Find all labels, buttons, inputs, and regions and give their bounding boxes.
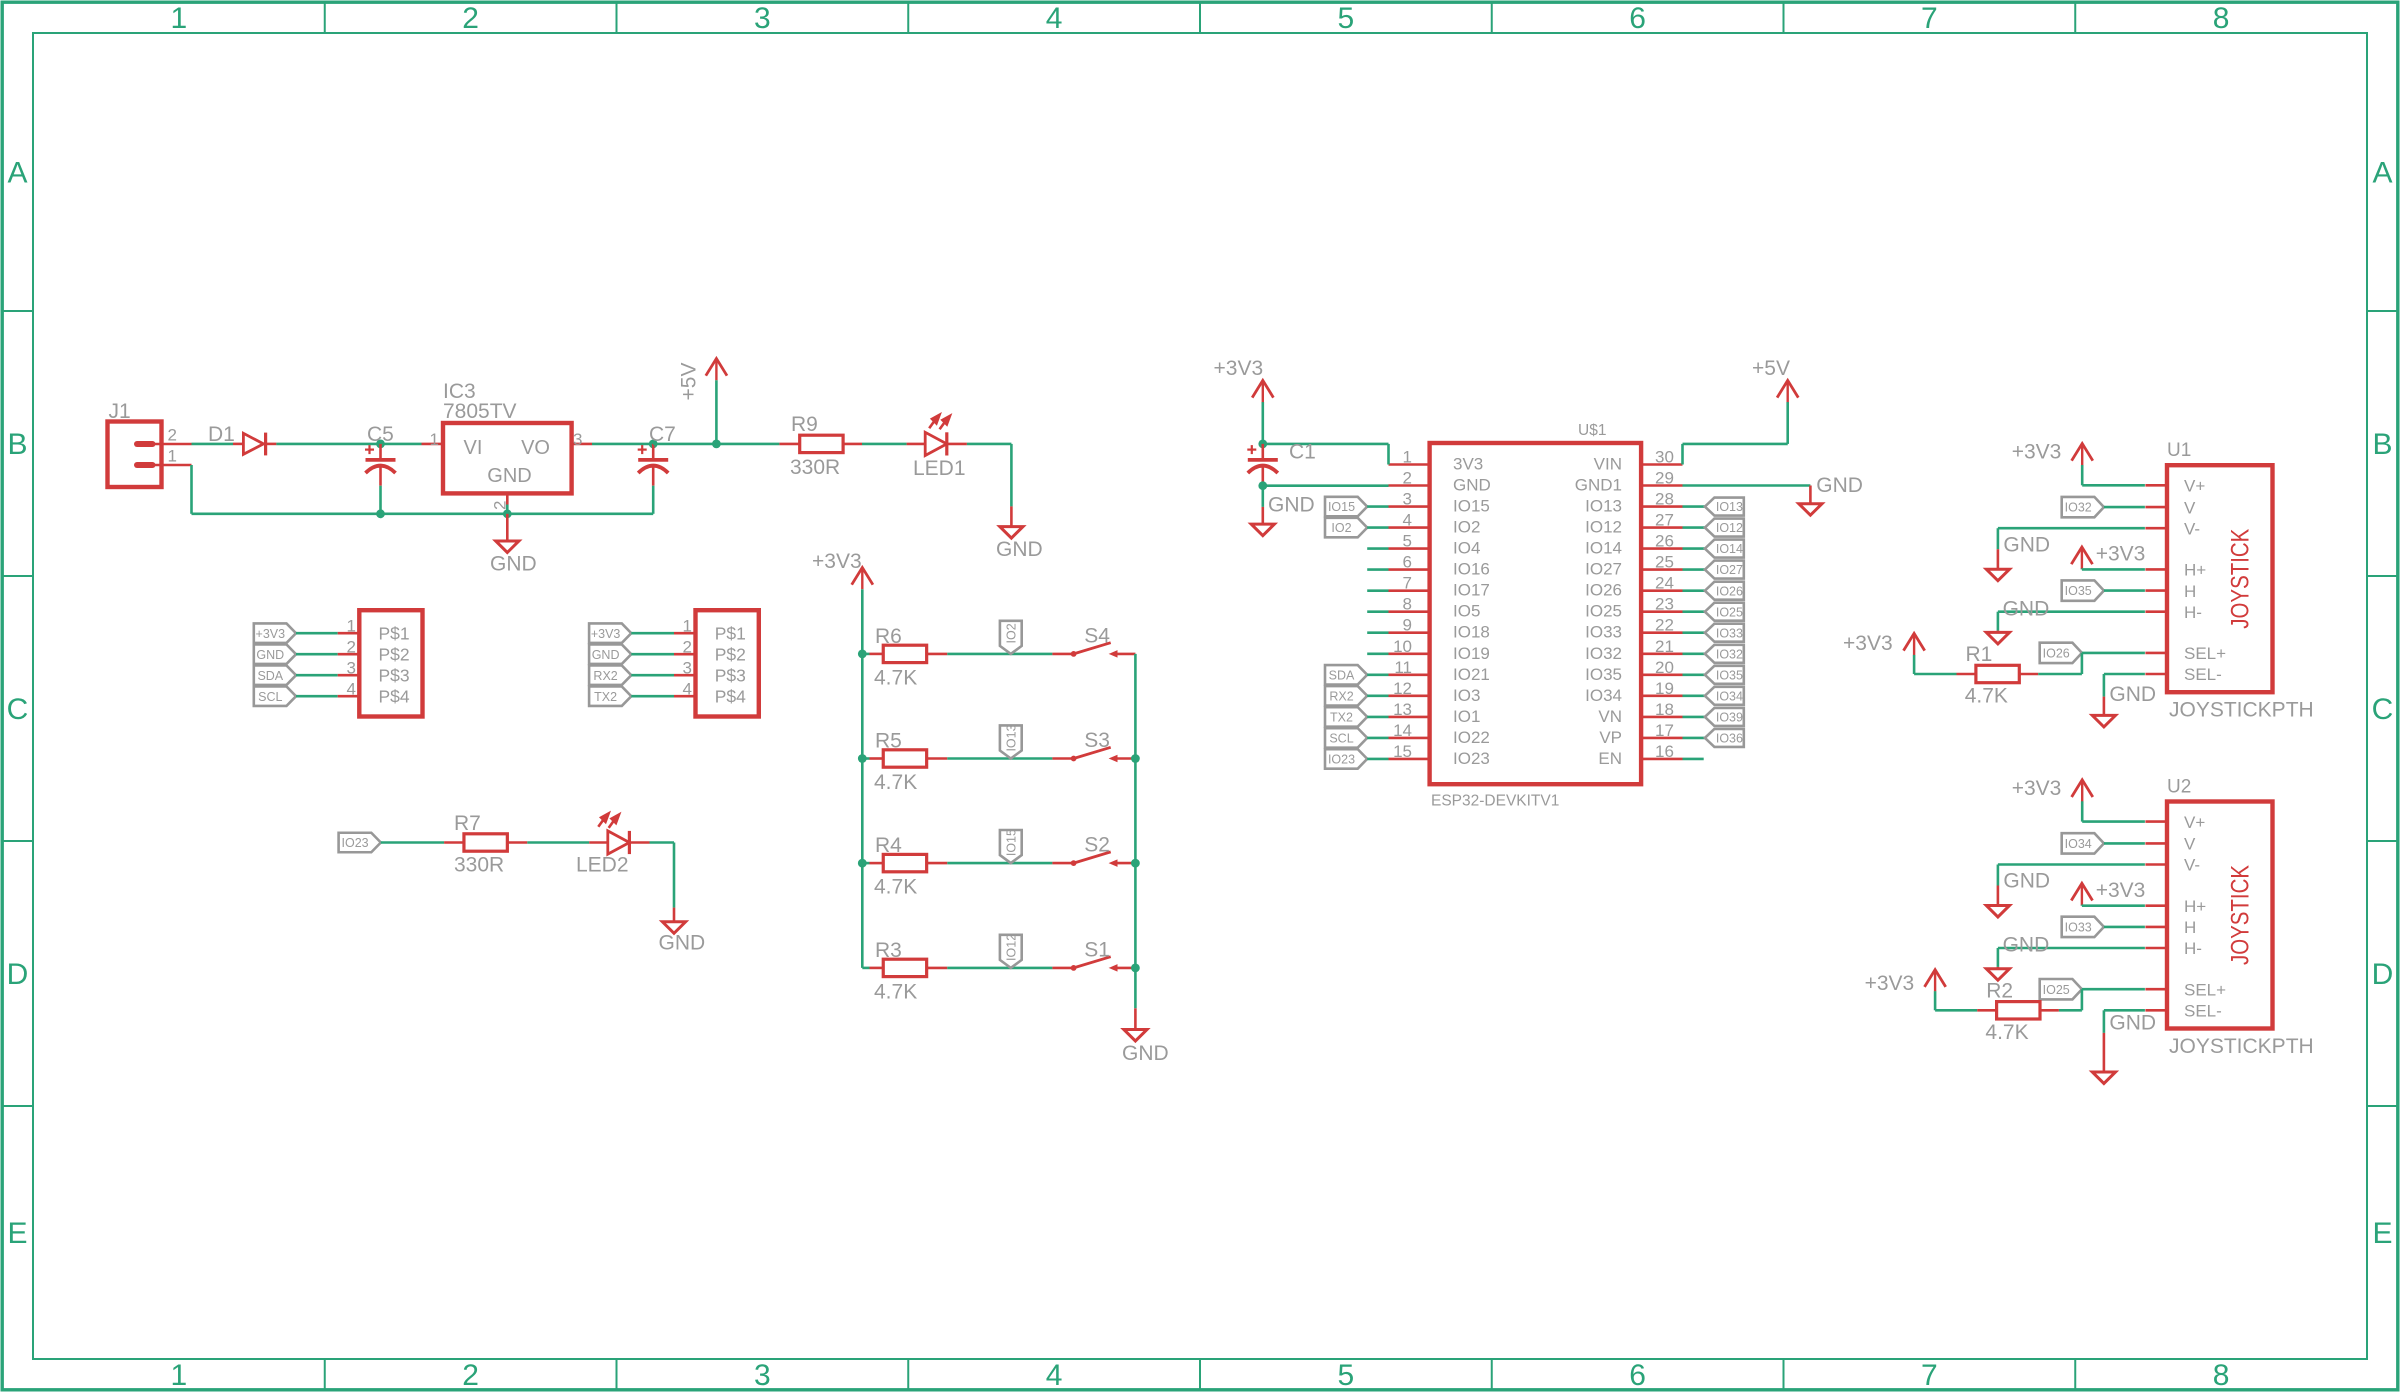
U2 pin SEL-	[2145, 1009, 2167, 1012]
svg-text:4.7K: 4.7K	[1965, 685, 2008, 708]
ground symbol below LED2	[673, 908, 676, 922]
net flag SDA to header P1 pin 3	[254, 665, 296, 685]
svg-text:C7: C7	[649, 423, 676, 446]
switch S2	[1052, 862, 1073, 865]
U$1 pin 1 (3V3)	[1389, 463, 1430, 466]
net flag GND to header P2 pin 2	[589, 644, 631, 664]
svg-text:IO26: IO26	[1716, 584, 1743, 598]
svg-text:IO26: IO26	[1585, 581, 1622, 600]
svg-text:+3V3: +3V3	[1214, 357, 1264, 380]
svg-text:24: 24	[1655, 574, 1674, 593]
svg-text:VI: VI	[464, 437, 483, 459]
wire R5 to S3	[947, 757, 1052, 760]
+3V3 supply at R1	[1913, 633, 1915, 655]
wire R3 to S1	[947, 967, 1052, 970]
U1 pin V-	[2145, 527, 2167, 530]
net flag +3V3 to header P2 pin 1	[589, 623, 631, 643]
svg-text:6: 6	[1629, 1359, 1646, 1392]
svg-text:B: B	[7, 428, 27, 461]
svg-text:GND: GND	[2003, 533, 2050, 556]
svg-text:3: 3	[683, 659, 692, 678]
svg-text:12: 12	[1393, 679, 1412, 698]
svg-text:TX2: TX2	[594, 690, 617, 704]
svg-text:S2: S2	[1084, 834, 1110, 857]
junction on +3V3 rail	[858, 650, 867, 659]
net flag IO26 at U$1 pin 24	[1683, 589, 1705, 592]
svg-text:H: H	[2184, 918, 2196, 937]
wire R7 to LED2	[527, 841, 589, 844]
svg-text:SDA: SDA	[257, 669, 283, 683]
+3V3 supply for button pull-ups	[861, 568, 863, 590]
svg-text:1: 1	[171, 1359, 188, 1392]
net flag SDA at U$1 pin 11	[1325, 665, 1367, 685]
net flag IO23 at U$1 pin 15	[1325, 749, 1367, 769]
svg-text:14: 14	[1393, 721, 1412, 740]
svg-text:3V3: 3V3	[1453, 455, 1483, 474]
svg-text:IO15: IO15	[1328, 500, 1355, 514]
U$1 pin 4 (IO2)	[1389, 526, 1430, 529]
svg-text:IO15: IO15	[1453, 497, 1490, 516]
svg-text:VO: VO	[521, 437, 550, 459]
wire LED1 to ground	[967, 443, 1012, 446]
U$1 pin 25 (IO27)	[1641, 568, 1682, 571]
resistor R5	[862, 757, 869, 760]
svg-text:EN: EN	[1598, 749, 1622, 768]
svg-text:30: 30	[1655, 448, 1674, 467]
wire C7 to +5V and R9	[653, 443, 779, 446]
U2 pin H-	[2145, 947, 2167, 950]
unconnected net stub pin 16	[1683, 758, 1704, 761]
net flag IO26 at U1 SEL+	[2040, 643, 2082, 663]
svg-text:P$2: P$2	[715, 645, 746, 665]
net flag IO12 at U$1 pin 27	[1683, 526, 1705, 529]
U1 pin V+	[2145, 484, 2167, 487]
U$1 pin 15 (IO23)	[1389, 758, 1430, 761]
U$1 pin 3 (IO15)	[1389, 505, 1430, 508]
unconnected net stub pin 5	[1367, 547, 1388, 550]
svg-text:IO32: IO32	[1585, 644, 1622, 663]
svg-text:IO25: IO25	[1716, 605, 1743, 619]
svg-text:GND: GND	[2109, 683, 2156, 706]
net flag SCL to header P1 pin 4	[254, 686, 296, 706]
U2 pin SEL+	[2145, 988, 2167, 991]
svg-text:P$4: P$4	[715, 687, 746, 707]
svg-text:26: 26	[1655, 532, 1674, 551]
junction C1 top	[1258, 440, 1267, 449]
junction on switch rail	[1131, 964, 1140, 973]
svg-text:IO23: IO23	[1328, 753, 1355, 767]
svg-text:R6: R6	[875, 625, 902, 648]
svg-text:C1: C1	[1289, 441, 1316, 464]
svg-text:IO2: IO2	[1453, 518, 1480, 537]
svg-text:IO36: IO36	[1716, 732, 1743, 746]
junction on +3V3 rail	[858, 754, 867, 763]
svg-text:R7: R7	[454, 812, 481, 835]
net flag IO32 at U$1 pin 21	[1683, 652, 1705, 655]
svg-text:P$4: P$4	[379, 687, 410, 707]
svg-text:U$1: U$1	[1578, 422, 1606, 439]
U2 pin V	[2145, 842, 2167, 845]
svg-text:3: 3	[1403, 490, 1412, 509]
svg-text:4: 4	[1046, 1359, 1063, 1392]
U$1 pin 12 (IO3)	[1389, 694, 1430, 697]
svg-text:GND: GND	[256, 648, 284, 662]
svg-text:GND: GND	[1268, 494, 1315, 517]
svg-text:GND: GND	[996, 538, 1043, 561]
svg-text:4: 4	[1403, 511, 1412, 530]
+3V3 supply at U2 H+	[2081, 883, 2083, 905]
svg-text:V-: V-	[2184, 519, 2200, 538]
net flag IO27 at U$1 pin 25	[1683, 568, 1705, 571]
svg-text:SEL-: SEL-	[2184, 665, 2222, 684]
svg-text:IO14: IO14	[1716, 542, 1743, 556]
svg-text:SEL+: SEL+	[2184, 980, 2226, 999]
+5V supply above VIN	[1786, 380, 1788, 402]
svg-text:D1: D1	[208, 423, 235, 446]
resistor R6	[862, 653, 869, 656]
wire C7 to GND rail	[652, 486, 655, 514]
U1 pin H-	[2145, 610, 2167, 613]
svg-text:IO34: IO34	[2065, 837, 2092, 851]
wire R9 to LED1	[862, 443, 907, 446]
svg-text:P$3: P$3	[715, 666, 746, 686]
svg-text:IO26: IO26	[2043, 647, 2070, 661]
svg-text:GND: GND	[2003, 597, 2050, 620]
U2 pin H+	[2145, 904, 2167, 907]
U1 pin SEL+	[2145, 652, 2167, 655]
net flag SCL at U$1 pin 14	[1325, 728, 1367, 748]
svg-text:S1: S1	[1084, 938, 1110, 961]
svg-text:5: 5	[1403, 532, 1412, 551]
ground symbol at U2 SEL-	[2103, 1033, 2106, 1072]
svg-text:25: 25	[1655, 553, 1674, 572]
svg-text:H+: H+	[2184, 561, 2206, 580]
svg-text:S4: S4	[1084, 624, 1110, 647]
U2 pin H	[2145, 926, 2167, 929]
svg-text:RX2: RX2	[1329, 689, 1353, 703]
svg-text:8: 8	[1403, 595, 1412, 614]
svg-text:6: 6	[1629, 2, 1646, 35]
svg-text:2: 2	[683, 638, 692, 657]
svg-text:5: 5	[1338, 2, 1355, 35]
svg-text:IO33: IO33	[2065, 921, 2092, 935]
U$1 pin 10 (IO19)	[1389, 652, 1430, 655]
svg-text:2: 2	[491, 501, 510, 510]
U1 pin H+	[2145, 568, 2167, 571]
svg-text:ESP32-DEVKITV1: ESP32-DEVKITV1	[1431, 793, 1559, 810]
svg-text:+3V3: +3V3	[1865, 972, 1915, 995]
svg-text:28: 28	[1655, 490, 1674, 509]
junction at +5V	[712, 440, 721, 449]
svg-text:GND: GND	[2003, 870, 2050, 893]
svg-text:A: A	[2372, 157, 2392, 190]
U$1 pin 6 (IO16)	[1389, 568, 1430, 571]
junction on +3V3 rail	[858, 859, 867, 868]
svg-text:4.7K: 4.7K	[1985, 1021, 2028, 1044]
svg-text:2: 2	[462, 2, 479, 35]
svg-text:+5V: +5V	[1752, 357, 1790, 380]
svg-text:VP: VP	[1599, 728, 1622, 747]
ground symbol at U1 H-	[1997, 631, 2000, 633]
svg-text:IO33: IO33	[1585, 623, 1622, 642]
U$1 pin 21 (IO32)	[1641, 652, 1682, 655]
net flag TX2 to header P2 pin 4	[589, 686, 631, 706]
joystick module U2	[2167, 802, 2273, 1029]
svg-text:+3V3: +3V3	[1843, 632, 1893, 655]
svg-text:R3: R3	[875, 939, 902, 962]
junction C5 on GND rail	[376, 509, 385, 518]
+3V3 supply at U1 V+	[2081, 444, 2083, 466]
unconnected net stub pin 10	[1367, 652, 1388, 655]
svg-text:4: 4	[1046, 2, 1063, 35]
svg-text:GND1: GND1	[1575, 476, 1622, 495]
wire switch common rail	[1134, 654, 1137, 1008]
svg-text:SEL+: SEL+	[2184, 644, 2226, 663]
svg-text:A: A	[7, 157, 27, 190]
svg-text:17: 17	[1655, 721, 1674, 740]
U$1 pin 24 (IO26)	[1641, 589, 1682, 592]
resistor R1	[1914, 673, 1956, 676]
svg-text:+5V: +5V	[678, 363, 701, 401]
net flag IO23 to R7	[339, 833, 381, 853]
net flag IO15	[1000, 830, 1022, 863]
LED LED2	[589, 841, 608, 844]
svg-text:330R: 330R	[454, 854, 504, 877]
svg-text:4.7K: 4.7K	[874, 771, 917, 794]
net flag IO14 at U$1 pin 26	[1683, 547, 1705, 550]
svg-text:1: 1	[168, 447, 177, 466]
U$1 pin 7 (IO17)	[1389, 589, 1430, 592]
svg-text:IO32: IO32	[2065, 501, 2092, 515]
svg-text:IO2: IO2	[1331, 521, 1351, 535]
wire U1 SEL- to ground	[2104, 673, 2145, 676]
junction at C7	[649, 440, 658, 449]
net flag TX2 at U$1 pin 13	[1325, 707, 1367, 727]
svg-text:IO12: IO12	[1005, 934, 1019, 961]
U$1 pin 26 (IO14)	[1641, 547, 1682, 550]
U$1 pin 16 (EN)	[1641, 758, 1682, 761]
U1 pin V	[2145, 506, 2167, 509]
net flag +3V3 to header P1 pin 1	[254, 623, 296, 643]
unconnected net stub pin 8	[1367, 610, 1388, 613]
svg-text:P$2: P$2	[379, 645, 410, 665]
svg-text:P$1: P$1	[715, 624, 746, 644]
svg-text:21: 21	[1655, 637, 1674, 656]
header P2 (UART)	[696, 610, 759, 716]
ground symbol at U1 V-	[1997, 549, 2000, 569]
svg-text:VN: VN	[1598, 707, 1622, 726]
svg-text:JOYSTICKPTH: JOYSTICKPTH	[2169, 1035, 2314, 1058]
switch S4	[1052, 653, 1073, 656]
unconnected net stub pin 9	[1367, 631, 1388, 634]
svg-text:IO35: IO35	[1716, 668, 1743, 682]
wire +5V to U$1 pin 30 (VIN)	[1681, 444, 1684, 465]
svg-text:IO1: IO1	[1453, 707, 1480, 726]
svg-text:C5: C5	[367, 423, 394, 446]
U$1 pin 20 (IO35)	[1641, 673, 1682, 676]
svg-text:7: 7	[1403, 574, 1412, 593]
svg-text:V-: V-	[2184, 856, 2200, 875]
U1 pin SEL-	[2145, 673, 2167, 676]
svg-text:P$1: P$1	[379, 624, 410, 644]
U$1 pin 23 (IO25)	[1641, 610, 1682, 613]
wire R2 to U2 SEL+	[2081, 989, 2084, 1010]
svg-text:+3V3: +3V3	[2012, 777, 2062, 800]
junction on switch rail	[1131, 754, 1140, 763]
svg-text:JOYSTICK: JOYSTICK	[2227, 865, 2255, 965]
svg-text:V: V	[2184, 835, 2196, 854]
wire U$1 pin 29 (GND1) to ground	[1683, 484, 1811, 487]
svg-text:S3: S3	[1084, 729, 1110, 752]
svg-text:SCL: SCL	[258, 690, 282, 704]
svg-text:SEL-: SEL-	[2184, 1002, 2222, 1021]
svg-text:U2: U2	[2167, 777, 2191, 798]
+3V3 supply at R2	[1934, 970, 1936, 992]
svg-text:7: 7	[1921, 1359, 1938, 1392]
svg-text:1: 1	[171, 2, 188, 35]
ground symbol below LED1	[1010, 506, 1013, 526]
svg-text:+3V3: +3V3	[591, 627, 621, 641]
svg-text:IO35: IO35	[2065, 584, 2092, 598]
svg-text:JOYSTICKPTH: JOYSTICKPTH	[2169, 699, 2314, 722]
svg-text:R5: R5	[875, 730, 902, 753]
U$1 pin 5 (IO4)	[1389, 547, 1430, 550]
svg-text:GND: GND	[1816, 474, 1863, 497]
svg-text:R1: R1	[1966, 643, 1993, 666]
svg-text:4.7K: 4.7K	[874, 980, 917, 1003]
svg-text:H-: H-	[2184, 603, 2202, 622]
wire U2 V- to ground	[1998, 863, 2145, 866]
svg-text:GND: GND	[659, 932, 706, 955]
svg-text:1: 1	[347, 617, 356, 636]
svg-text:SCL: SCL	[1329, 732, 1353, 746]
net flag GND to header P1 pin 2	[254, 644, 296, 664]
svg-text:+3V3: +3V3	[812, 550, 862, 573]
svg-text:LED2: LED2	[576, 854, 629, 877]
capacitor C1	[1262, 444, 1265, 459]
svg-text:IO21: IO21	[1453, 665, 1490, 684]
svg-text:E: E	[7, 1217, 27, 1250]
net flag IO25 at U2 SEL+	[2040, 979, 2082, 999]
wire J1 pin2 to D1	[192, 443, 234, 446]
wire IC3 VO to C7	[592, 443, 653, 446]
ground symbol below IC3	[506, 514, 509, 541]
svg-text:IO15: IO15	[1005, 829, 1019, 856]
svg-text:4.7K: 4.7K	[874, 666, 917, 689]
LED LED1	[907, 443, 926, 446]
wire +3V3 to U2 H+	[2082, 904, 2145, 907]
unconnected net stub pin 6	[1367, 568, 1388, 571]
svg-text:IO19: IO19	[1453, 644, 1490, 663]
resistor R3	[862, 967, 869, 970]
wire R1 to U1 SEL+	[2081, 653, 2084, 674]
svg-text:IO25: IO25	[2043, 983, 2070, 997]
net flag IO12	[1000, 935, 1022, 968]
net flag IO13	[1000, 725, 1022, 758]
svg-text:C: C	[7, 693, 29, 726]
svg-text:3: 3	[754, 1359, 771, 1392]
U2 pin V+	[2145, 820, 2167, 823]
svg-text:IO34: IO34	[1585, 686, 1622, 705]
U$1 pin 28 (IO13)	[1641, 505, 1682, 508]
svg-text:IO12: IO12	[1585, 518, 1622, 537]
svg-text:5: 5	[1338, 1359, 1355, 1392]
svg-text:22: 22	[1655, 616, 1674, 635]
svg-text:IO13: IO13	[1005, 724, 1019, 751]
resistor R2	[1935, 1009, 1977, 1012]
svg-text:GND: GND	[487, 465, 531, 487]
svg-text:27: 27	[1655, 511, 1674, 530]
switch S1	[1052, 967, 1073, 970]
svg-text:V+: V+	[2184, 813, 2205, 832]
U$1 pin 9 (IO18)	[1389, 631, 1430, 634]
svg-text:IO16: IO16	[1453, 560, 1490, 579]
U$1 pin 29 (GND1)	[1641, 484, 1682, 487]
svg-text:SDA: SDA	[1329, 668, 1355, 682]
svg-text:+3V3: +3V3	[256, 627, 286, 641]
svg-text:IO33: IO33	[1716, 626, 1743, 640]
wire C5 to GND rail	[379, 486, 382, 514]
svg-text:VIN: VIN	[1594, 455, 1622, 474]
wire U1 V- to ground	[1998, 527, 2145, 530]
unconnected net stub pin 7	[1367, 589, 1388, 592]
net flag IO15 at U$1 pin 3	[1325, 497, 1367, 516]
net flag IO33 at U$1 pin 22	[1683, 631, 1705, 634]
net flag RX2 at U$1 pin 12	[1325, 686, 1367, 706]
+3V3 supply at U2 V+	[2081, 780, 2083, 802]
wire R4 to S2	[947, 862, 1052, 865]
wire U2 H- to ground	[1998, 947, 2145, 950]
svg-text:19: 19	[1655, 679, 1674, 698]
U1 pin H	[2145, 589, 2167, 592]
U$1 pin 27 (IO12)	[1641, 526, 1682, 529]
voltage regulator IC3 7805TV	[422, 443, 444, 446]
connector J1	[108, 422, 162, 488]
+3V3 supply above C1	[1262, 402, 1265, 444]
svg-text:GND: GND	[2003, 934, 2050, 957]
U$1 pin 22 (IO33)	[1641, 631, 1682, 634]
svg-text:IO27: IO27	[1585, 560, 1622, 579]
svg-text:H-: H-	[2184, 939, 2202, 958]
svg-text:4.7K: 4.7K	[874, 876, 917, 899]
U$1 pin 13 (IO1)	[1389, 716, 1430, 719]
wire +3V3 to U1 V+	[2082, 484, 2145, 487]
+3V3 supply at U1 H+	[2081, 547, 2083, 569]
svg-text:2: 2	[347, 638, 356, 657]
svg-text:330R: 330R	[790, 456, 840, 479]
ground symbol at U2 V-	[1997, 886, 2000, 906]
svg-text:C: C	[2372, 693, 2394, 726]
ground symbol below C1	[1262, 486, 1265, 507]
U$1 pin 17 (VP)	[1641, 737, 1682, 740]
wire +3V3 to U1 H+	[2082, 568, 2145, 571]
svg-text:IO13: IO13	[1585, 497, 1622, 516]
svg-text:B: B	[2372, 428, 2392, 461]
ground symbol below switches	[1134, 1008, 1137, 1029]
svg-text:20: 20	[1655, 658, 1674, 677]
svg-text:7: 7	[1921, 2, 1938, 35]
wire +3V3 rail down left side	[861, 589, 864, 968]
svg-text:+3V3: +3V3	[2096, 879, 2146, 902]
svg-text:IO39: IO39	[1716, 711, 1743, 725]
svg-text:GND: GND	[592, 648, 620, 662]
svg-text:D: D	[2372, 958, 2394, 991]
svg-text:4: 4	[347, 680, 356, 699]
svg-text:IO23: IO23	[342, 836, 369, 850]
net flag IO34 at U$1 pin 19	[1683, 694, 1705, 697]
svg-text:2: 2	[168, 426, 177, 445]
wire U1 H- to ground	[1998, 610, 2145, 613]
